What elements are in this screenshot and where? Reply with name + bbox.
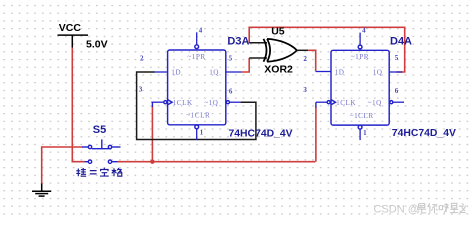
svg-text:74HC74D_4V: 74HC74D_4V	[229, 128, 293, 139]
wire U1 1Q to XOR lower input	[241, 58, 249, 72]
XOR output stub	[297, 49, 309, 51]
wire switch to FF clocks (bottom run)	[118, 161, 316, 163]
svg-text:1: 1	[363, 129, 367, 137]
flip-flop U1 (D3A) 74HC74D box	[151, 32, 241, 140]
ground	[32, 184, 51, 197]
VCC power symbol	[58, 35, 89, 47]
svg-text:~1Q: ~1Q	[204, 99, 218, 107]
wire U2 1CLK riser	[315, 107, 317, 162]
svg-text:1CLK: 1CLK	[173, 99, 193, 107]
svg-text:~1PR: ~1PR	[351, 53, 369, 61]
wire XOR out to U2 1D	[308, 50, 315, 71]
svg-text:VCC: VCC	[59, 22, 82, 34]
svg-text:74HC74D_4V: 74HC74D_4V	[392, 128, 456, 139]
svg-text:4: 4	[199, 26, 203, 34]
key = space label (键 = 空格) hand-drawn CJK	[76, 168, 122, 177]
svg-text:U5: U5	[271, 25, 285, 37]
wire to U1 1CLK	[151, 106, 153, 162]
svg-text:1CLK: 1CLK	[336, 99, 356, 107]
svg-text:2: 2	[140, 55, 144, 63]
svg-text:CSDN @: CSDN @	[374, 203, 419, 215]
svg-text:~1CLR: ~1CLR	[350, 112, 374, 120]
svg-text:D3A: D3A	[227, 36, 249, 48]
flip-flop U2 (D4A) 74HC74D box	[316, 33, 404, 141]
XOR gate U5 body	[264, 39, 297, 62]
svg-text:~1Q: ~1Q	[368, 99, 382, 107]
svg-text:5.0V: 5.0V	[86, 39, 108, 51]
svg-text:1D: 1D	[171, 69, 181, 77]
switch S5	[82, 139, 121, 163]
junction dot clock net	[150, 160, 154, 164]
top feedback wire (U2 1Q to XOR upper input)	[249, 27, 405, 72]
svg-text:1Q: 1Q	[209, 69, 219, 77]
svg-text:1D: 1D	[335, 69, 345, 77]
svg-text:XOR2: XOR2	[264, 63, 293, 75]
svg-text:2: 2	[303, 55, 307, 63]
XOR gate U5 input stubs	[249, 43, 267, 58]
svg-text:~1CLR: ~1CLR	[186, 112, 210, 120]
svg-text:S5: S5	[93, 124, 106, 136]
black feedback wire ~1Q to 1D (U1)	[137, 72, 256, 140]
svg-text:5: 5	[395, 54, 399, 62]
svg-text:~1PR: ~1PR	[187, 53, 205, 61]
svg-text:6: 6	[395, 87, 399, 95]
wire ground to switch upper lead	[42, 147, 83, 184]
svg-text:3: 3	[139, 86, 143, 94]
svg-text:1: 1	[200, 129, 204, 137]
wire VCC to switch lower contact	[72, 48, 85, 162]
svg-text:5: 5	[229, 55, 233, 63]
svg-text:4: 4	[362, 27, 366, 35]
svg-text:6: 6	[229, 88, 233, 96]
svg-text:D4A: D4A	[390, 36, 412, 48]
svg-text:1Q: 1Q	[373, 69, 383, 77]
svg-text:3: 3	[303, 86, 307, 94]
